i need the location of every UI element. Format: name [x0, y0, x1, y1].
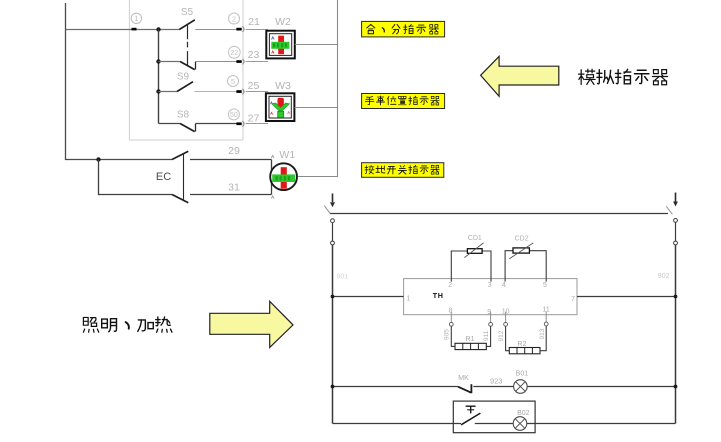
S8 stub — [195, 124, 197, 132]
svg-text:S5: S5 — [181, 7, 194, 18]
svg-text:S9: S9 — [177, 71, 190, 82]
right disconnect blade — [666, 206, 672, 214]
wire row 4 right — [196, 123, 237, 125]
svg-text:S8: S8 — [177, 109, 190, 120]
plug arc row3 — [242, 89, 244, 95]
plug arc row1 — [242, 26, 244, 32]
pin 11 wire to R2 — [545, 312, 547, 322]
big left arrow — [481, 56, 559, 96]
terminal tick row2 right — [236, 60, 241, 63]
left bus — [332, 245, 334, 424]
terminal circle 22 — [228, 46, 240, 58]
svg-text:1: 1 — [134, 14, 138, 23]
heater block TH — [404, 279, 577, 315]
svg-text:B02: B02 — [517, 410, 530, 417]
left disconnect blade — [324, 206, 330, 214]
big right arrow — [210, 301, 293, 347]
svg-text:1: 1 — [407, 296, 411, 303]
capacitor CD1 — [467, 249, 482, 254]
W1 tiny plug marks — [271, 155, 274, 158]
limit switch enclosure box — [453, 401, 535, 433]
svg-text:25: 25 — [248, 80, 260, 92]
indicator W2 outer box — [266, 31, 295, 59]
capacitor CD2 — [513, 248, 529, 253]
wire: left supply bus — [66, 3, 173, 160]
svg-text:21: 21 — [248, 16, 260, 28]
W2 green bar texture — [273, 43, 275, 47]
svg-text:4: 4 — [502, 282, 506, 289]
vertical bus of switch group — [158, 30, 160, 124]
plug arc row2 — [242, 59, 244, 65]
wire W3 to bus — [294, 107, 337, 109]
wire 25 — [246, 91, 268, 93]
indicator W2 inner box — [269, 34, 291, 56]
svg-text:2: 2 — [448, 282, 452, 289]
svg-text:905: 905 — [443, 329, 450, 340]
switch S9 upper blade — [180, 62, 195, 70]
EC bottom blade — [172, 195, 188, 203]
W3 tiny marks — [270, 102, 272, 104]
svg-text:W3: W3 — [275, 80, 291, 92]
W3 green wings — [272, 103, 290, 111]
capacitor CD1 loop — [451, 251, 491, 282]
lamp row wire — [333, 386, 459, 388]
W2 green horizontal bar — [271, 42, 289, 49]
terminal circle 5 — [228, 76, 239, 87]
S9 upper stub — [195, 62, 197, 70]
terminal circle 50 — [228, 109, 239, 120]
W2 red vertical bar — [278, 36, 284, 55]
capacitor CD2 loop — [505, 251, 546, 282]
EC branch down — [99, 160, 173, 195]
W1 red vertical bar — [281, 167, 287, 189]
indicator W3 outer box — [266, 93, 295, 121]
svg-text:902: 902 — [658, 273, 670, 280]
right bus — [675, 245, 677, 424]
switch S8 blade — [180, 124, 195, 132]
terminal circle 1 — [131, 13, 141, 23]
wire row 3 — [159, 91, 178, 93]
wire row 1 right of S5 — [195, 29, 236, 31]
EC top blade — [172, 151, 188, 159]
label box: shou che wei zhi zhi shi qi — [362, 94, 445, 109]
wire 31 — [190, 194, 272, 196]
right bus terminals — [674, 219, 678, 223]
W1 connecting link — [271, 160, 273, 195]
W2 tiny blue mark — [272, 37, 275, 40]
svg-text:911: 911 — [483, 330, 490, 341]
top bus wire — [330, 213, 668, 215]
junction row3 — [156, 89, 160, 93]
TH pin1 wire — [333, 296, 404, 298]
wire row 4 — [159, 123, 181, 125]
wire 27 — [246, 123, 268, 125]
right disconnect arrow — [675, 193, 677, 203]
wire W2 to bus — [295, 44, 338, 46]
svg-text:R2: R2 — [518, 341, 527, 348]
terminal circle 2 — [229, 13, 240, 24]
svg-text:CD1: CD1 — [468, 235, 482, 242]
svg-text:913: 913 — [539, 328, 546, 339]
gray collector bus — [298, 0, 337, 177]
label box: he fen zhi shi qi — [362, 21, 445, 37]
terminal tick row4 right — [236, 122, 241, 125]
svg-text:31: 31 — [228, 182, 240, 194]
svg-text:TH: TH — [433, 291, 444, 300]
terminal tick row1 right — [236, 28, 241, 31]
W2 tiny red mark — [272, 51, 274, 53]
svg-text:23: 23 — [248, 49, 260, 61]
svg-text:50: 50 — [230, 112, 238, 119]
limit switch blade — [461, 413, 480, 425]
TH pin7 wire — [577, 296, 676, 298]
svg-text:W1: W1 — [279, 149, 295, 161]
switch S9 lower blade — [177, 82, 193, 92]
wire row 1 left — [66, 29, 180, 31]
svg-text:5: 5 — [543, 282, 547, 289]
W3 green square foot — [278, 111, 284, 117]
pin 8 wire to R1 — [450, 312, 452, 323]
pin 10 wire to R2 — [505, 312, 507, 323]
terminal tick node 1 — [132, 28, 137, 31]
text: mo ni zhi shi qi — [579, 69, 668, 84]
frame line left of switch block — [128, 0, 130, 140]
S5 linkage line — [187, 24, 189, 65]
bottom bus wire — [333, 423, 462, 425]
switch S5 blade — [179, 20, 195, 30]
W1 green bar texture — [276, 176, 278, 180]
svg-text:22: 22 — [230, 50, 238, 57]
wire row 2 right — [196, 61, 237, 63]
indicator W3 inner box — [269, 96, 291, 118]
svg-text:CD2: CD2 — [515, 235, 529, 242]
left disconnect arrow — [332, 194, 334, 203]
svg-text:MK: MK — [458, 375, 469, 382]
svg-text:901: 901 — [337, 274, 349, 281]
indicator W1 circle — [270, 163, 297, 190]
wire 21 — [246, 29, 268, 31]
text: zhao ming dun jia re — [83, 317, 172, 332]
svg-text:B01: B01 — [516, 371, 529, 378]
svg-text:3: 3 — [488, 282, 492, 289]
svg-text:7: 7 — [571, 296, 575, 303]
wire row 2 — [159, 61, 181, 63]
label box: jie di kai guan zhi shi qi — [362, 163, 444, 178]
W3 red bar — [278, 98, 284, 107]
EC linkage — [183, 154, 185, 201]
frame line right of switch block — [242, 0, 244, 140]
terminal tick row3 right — [236, 90, 241, 93]
wire row 3 right — [195, 91, 237, 93]
svg-text:2: 2 — [232, 14, 236, 23]
svg-text:29: 29 — [228, 145, 240, 157]
svg-text:923: 923 — [490, 377, 503, 386]
svg-text:8: 8 — [449, 308, 453, 315]
W1 green horizontal bar — [272, 174, 295, 182]
junction on bus — [156, 27, 160, 31]
left bus terminals — [331, 219, 335, 223]
svg-text:27: 27 — [248, 112, 260, 124]
svg-text:R1: R1 — [466, 336, 475, 343]
svg-text:EC: EC — [156, 171, 171, 183]
junction on EC feed — [96, 157, 100, 161]
svg-text:W2: W2 — [275, 16, 291, 28]
pin 9 wire to R1 — [490, 312, 492, 323]
wire 23 — [246, 61, 268, 63]
plug arc row4 — [242, 121, 244, 127]
limit switch actuator — [466, 405, 476, 407]
svg-text:912: 912 — [498, 330, 505, 341]
svg-text:5: 5 — [231, 77, 235, 86]
frame line bottom of switch block — [129, 139, 243, 141]
wire 29 — [190, 159, 272, 161]
junction row2 — [156, 59, 160, 63]
